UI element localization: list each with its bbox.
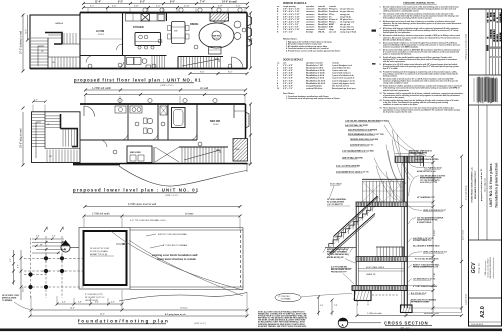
bottom treads vertical lower block <box>47 150 77 163</box>
bedroom window right <box>246 112 250 128</box>
svg-text:8" CONC BLK (TYP): 8" CONC BLK (TYP) <box>85 294 103 296</box>
dim ladder top-left of square <box>32 239 70 253</box>
garage/stair block outline left <box>30 15 80 69</box>
pier grid dashed verticals <box>31 236 63 298</box>
svg-text:UNIT NO.01 floor plans: UNIT NO.01 floor plans <box>489 163 493 207</box>
svg-text:finished grade for frost prote: finished grade for frost protection. <box>383 31 411 34</box>
svg-text:NEW HAVEN CONNECTICUT: NEW HAVEN CONNECTICUT <box>474 170 477 199</box>
dimension labels top <box>95 1 237 4</box>
up arrows top of pier lines <box>44 227 47 232</box>
interior U wall lower stair <box>61 114 78 147</box>
grade curves across foundation <box>111 231 243 290</box>
svg-text:STANDARD GENERAL NOTES: STANDARD GENERAL NOTES <box>403 1 435 4</box>
top wall main body <box>80 12 247 14</box>
floor to floor dims text <box>434 178 465 277</box>
svg-text:field conditions before procee: field conditions before proceeding with … <box>383 17 432 20</box>
project column dividers <box>478 105 480 240</box>
window tag circles top wall <box>143 8 242 12</box>
extension verticals bottom dims <box>31 290 247 316</box>
svg-text:8'-0": 8'-0" <box>18 264 20 268</box>
notes below foundation <box>85 294 105 302</box>
title block outer border <box>469 9 502 326</box>
svg-text:DOOR SCHEDULE: DOOR SCHEDULE <box>283 60 304 62</box>
stair enclosure walls <box>178 56 223 58</box>
cooktop X <box>141 14 150 22</box>
svg-text:3'-4" x 4'-6" x 1'-10": 3'-4" x 4'-6" x 1'-10" <box>283 28 300 31</box>
svg-text:conditions to remain as noted: conditions to remain as noted on the pla… <box>383 103 418 106</box>
svg-text:for all permits required for t: for all permits required for the work. <box>383 110 413 113</box>
leader arrow to wall <box>116 243 125 245</box>
svg-text:KITCHEN: KITCHEN <box>133 26 144 29</box>
svg-text:of the work on this project.: of the work on this project. <box>383 96 405 99</box>
svg-text:MECH RM: MECH RM <box>130 152 141 154</box>
svg-text:9'-6": 9'-6" <box>200 72 205 74</box>
svg-text:fixed/glz: fixed/glz <box>306 32 313 34</box>
svg-text:VIF PRIOR TO CONST: VIF PRIOR TO CONST <box>411 302 430 304</box>
kitchen island <box>135 33 161 46</box>
slab band <box>352 286 407 291</box>
kitchen counter band <box>126 14 166 22</box>
dimension extension lines into top wall <box>88 8 245 13</box>
svg-text:3'-0" x 4'-6" x 1'-10": 3'-0" x 4'-6" x 1'-10" <box>283 18 300 21</box>
closet lines bedroom <box>233 104 235 118</box>
bottom corner mark <box>469 321 502 323</box>
svg-text:4: 4 <box>277 72 278 75</box>
svg-text:proposed residence unit no. 01: proposed residence unit no. 01 <box>480 168 483 201</box>
bottom dim mid span <box>31 309 247 311</box>
stair rail line <box>48 56 80 58</box>
upper stair treads <box>48 33 76 44</box>
door arc kitchen <box>117 44 123 50</box>
left tiny note foundation <box>2 295 20 302</box>
svg-text:12'x14': 12'x14' <box>98 34 105 36</box>
firm divider <box>469 239 502 241</box>
dn arrow lower block <box>36 122 41 158</box>
margin marks <box>372 30 377 32</box>
svg-text:1-7/8th left width: 1-7/8th left width <box>92 86 112 90</box>
svg-text:9'-0" x 7'-0": 9'-0" x 7'-0" <box>283 88 293 90</box>
svg-text:LIV RM: LIV RM <box>96 30 104 33</box>
svg-text:casng tmp w/ head: casng tmp w/ head <box>340 31 356 34</box>
svg-text:R-30 BATT INSUL: R-30 BATT INSUL <box>417 221 432 224</box>
right wall double line <box>403 156 405 308</box>
svg-text:rough opening: rough opening <box>283 6 296 8</box>
svg-text:2. Contractor verify all open: 2. Contractor verify all openings and sw… <box>286 97 340 100</box>
armchairs right <box>234 21 241 28</box>
entry door arc top <box>84 106 95 117</box>
svg-text:framing members.: framing members. <box>383 75 398 77</box>
svg-text:points as required by the fabr: points as required by the fabricator. <box>383 53 412 56</box>
deck guardrail <box>362 178 404 180</box>
left wall <box>355 207 357 290</box>
svg-text:16'-8": 16'-8" <box>23 286 25 292</box>
lower stair treads vertical <box>52 57 76 69</box>
guardrail note block <box>327 198 347 206</box>
svg-text:total width o wall: total width o wall <box>424 312 439 315</box>
section glazed door lines <box>401 181 403 202</box>
left vertical dim plan1 <box>22 15 24 71</box>
extension lines into foundation <box>84 218 240 230</box>
stair treads horizontal left block <box>31 38 48 68</box>
sheet number divider <box>469 297 502 299</box>
far right overall dim <box>461 156 463 312</box>
svg-text:material: material <box>318 5 325 8</box>
door arcs lower plan <box>121 133 128 140</box>
stair rail balusters <box>334 196 378 248</box>
stair stringer <box>330 214 375 254</box>
living room seating oval <box>199 23 234 48</box>
left lower annotations <box>327 249 352 274</box>
svg-text:obs glz unit: obs glz unit <box>340 23 350 26</box>
powder wc <box>142 59 147 64</box>
up arrow stair <box>38 46 44 66</box>
svg-text:14'-0": 14'-0" <box>70 308 75 310</box>
hatched crawl block <box>233 139 248 162</box>
stair divider wall <box>47 38 49 69</box>
svg-text:casement: casement <box>306 23 315 26</box>
lower rail posts <box>376 246 404 248</box>
svg-text:DINING: DINING <box>190 23 199 26</box>
mech room <box>127 146 152 163</box>
svg-text:4'-0": 4'-0" <box>95 302 99 304</box>
svg-text:shall be performed in a workma: shall be performed in a workmanlike mann… <box>383 10 420 12</box>
svg-text:proposed first floor level pla: proposed first floor level plan : UNIT N… <box>74 78 201 83</box>
section marker A foundation <box>61 243 70 252</box>
right vertical dim plan1 <box>250 13 252 68</box>
svg-text:4'-0" FTG BTM MIN: 4'-0" FTG BTM MIN <box>331 266 348 269</box>
svg-text:8" CONC BLK: 8" CONC BLK <box>279 296 291 298</box>
svg-text:energy star: energy star <box>340 13 350 16</box>
notes right of foundation <box>158 233 188 247</box>
svg-text:GRADE VIF: GRADE VIF <box>366 273 375 276</box>
svg-text:energy code compliance report.: energy code compliance report. <box>383 82 409 85</box>
dimension line top overall <box>83 3 247 5</box>
pier footing dots <box>28 256 64 289</box>
leader curves left annotations <box>374 121 426 202</box>
svg-text:24 OF 38 SHTS: 24 OF 38 SHTS <box>471 324 484 326</box>
svg-text:operation / material: operation / material <box>306 61 323 64</box>
fascia <box>423 156 425 166</box>
mid landing wall <box>62 43 80 45</box>
svg-text:casement: casement <box>306 28 315 31</box>
grade s-curve below plan2 <box>119 166 247 186</box>
bottom wall <box>30 68 247 70</box>
svg-text:CRL/GL: CRL/GL <box>318 32 326 34</box>
crawl lines <box>358 268 404 270</box>
svg-text:SILL SEALER & TERMITE SHLD: SILL SEALER & TERMITE SHLD <box>413 245 440 248</box>
svg-text:1/2" ANCH BOLT @ 32" OC: 1/2" ANCH BOLT @ 32" OC <box>413 278 436 281</box>
firm address rotated <box>484 257 495 279</box>
svg-text:4-7 prop base to s/c: 4-7 prop base to s/c <box>165 313 186 316</box>
hatch under stair stringer <box>327 216 375 259</box>
closet stripes <box>152 56 165 69</box>
svg-text:casement: casement <box>306 10 315 13</box>
bathtub <box>172 108 186 128</box>
svg-text:w/ egrs hdw unit: w/ egrs hdw unit <box>340 28 354 31</box>
right dimension line <box>432 156 434 312</box>
svg-text:GCV: GCV <box>471 262 477 274</box>
top dim line foundation <box>85 206 240 208</box>
svg-text:( 3/16" = 1'-0" ): ( 3/16" = 1'-0" ) <box>194 323 206 325</box>
left wall of main body <box>79 13 81 16</box>
svg-text:6'-2": 6'-2" <box>118 2 123 4</box>
svg-text:FTG W/ (2) #4 BARS: FTG W/ (2) #4 BARS <box>90 250 108 253</box>
svg-text:5'-0": 5'-0" <box>52 236 56 238</box>
svg-text:24'-2" overall: 24'-2" overall <box>462 230 465 240</box>
svg-text:ALUM GUTTER O/ 1x8: ALUM GUTTER O/ 1x8 <box>417 170 436 173</box>
left footing <box>355 291 372 301</box>
bottom wall lower plan thick garage <box>73 163 120 166</box>
svg-text:@ 4" OC MAX TYP: @ 4" OC MAX TYP <box>327 203 344 206</box>
shower <box>160 106 167 115</box>
bottom dense note block <box>258 310 307 327</box>
svg-text:HP glazed unit: HP glazed unit <box>340 18 353 21</box>
svg-text:( 3/16" = 1'-0" ): ( 3/16" = 1'-0" ) <box>165 195 179 197</box>
stair arrow bottom run <box>184 150 220 160</box>
sofa lower <box>209 47 222 55</box>
revision divider <box>469 74 502 76</box>
right leader curves <box>409 151 425 306</box>
svg-text:4" CONC SLAB W/ 6x6 WWM: 4" CONC SLAB W/ 6x6 WWM <box>413 285 438 288</box>
svg-text:treated in accordance with AWP: treated in accordance with AWPA standard… <box>383 45 419 48</box>
svg-text:7'-4": 7'-4" <box>200 1 205 4</box>
svg-text:2'-8": 2'-8" <box>334 305 338 307</box>
grade line left of stair <box>325 246 356 248</box>
conc blk oval note <box>275 293 301 301</box>
top wall lower plan <box>80 103 246 105</box>
revision entries dark text blobs <box>488 13 501 42</box>
svg-text:typ: typ <box>40 243 42 246</box>
roof band <box>395 156 424 162</box>
svg-text:TO REMAIN: TO REMAIN <box>2 299 13 302</box>
svg-text:casement: casement <box>306 18 315 21</box>
svg-text:with the code requirements.: with the code requirements. <box>383 60 406 63</box>
svg-text:remarks: remarks <box>329 6 336 8</box>
svg-text:36" GUARDRAIL TYP: 36" GUARDRAIL TYP <box>417 196 435 199</box>
svg-text:STONE RIDGE DEVELOPMENT LLC: STONE RIDGE DEVELOPMENT LLC <box>472 167 474 203</box>
section marker circle <box>338 318 348 328</box>
svg-text:24'-0": 24'-0" <box>100 314 105 316</box>
svg-text:30'-6" bldg t/o wall: 30'-6" bldg t/o wall <box>20 128 23 148</box>
liv room mid line <box>80 38 123 40</box>
copyright micro text left of block <box>465 34 468 305</box>
svg-text:ADJACENT FINISHES. SEE STRUCT: ADJACENT FINISHES. SEE STRUCT DWGS FOR A… <box>258 325 307 328</box>
svg-text:W/ 2x2 BALUSTERS: W/ 2x2 BALUSTERS <box>327 201 345 204</box>
svg-text:Raised panel gar dr w/ opnr: Raised panel gar dr w/ opnr <box>332 88 356 90</box>
svg-text:t/o base: t/o base <box>185 213 194 216</box>
door arc entry right <box>232 57 244 69</box>
svg-text:ex't base: ex't base <box>180 307 188 310</box>
right wall <box>246 13 248 69</box>
svg-text:10: 10 <box>277 88 279 90</box>
deck floor band <box>356 202 407 207</box>
svg-text:PROTECTION TYP: PROTECTION TYP <box>331 272 347 274</box>
interior wall kitchen/entry <box>166 13 168 22</box>
svg-text:8'-1": 8'-1" <box>434 178 436 182</box>
svg-text:2x8 CEDAR FASCIA RIPPED: 2x8 CEDAR FASCIA RIPPED <box>415 158 439 161</box>
stair treads horizontal lower run1 <box>32 115 45 147</box>
svg-text:foundation/footing plan: foundation/footing plan <box>78 319 170 324</box>
svg-text:PATCH & REPAIR AS REQ: PATCH & REPAIR AS REQ <box>327 253 349 256</box>
svg-text:2'-4" x 3'-0" x 1'-8": 2'-4" x 3'-0" x 1'-8" <box>283 23 299 26</box>
svg-text:APRON & DRIVE: APRON & DRIVE <box>2 297 17 300</box>
svg-text:remarks: remarks <box>332 62 339 64</box>
svg-text:4'-0": 4'-0" <box>320 305 324 307</box>
small dims above stair block <box>33 101 45 103</box>
right vertical dim plan2 <box>250 104 252 164</box>
svg-text:Group, Inc.: Group, Inc. <box>478 262 481 273</box>
svg-text:Door Notes:: Door Notes: <box>283 92 295 95</box>
svg-text:than 8'-0" in width.: than 8'-0" in width. <box>383 67 399 70</box>
svg-text:9'-2": 9'-2" <box>228 72 233 74</box>
svg-text:4'-0": 4'-0" <box>78 302 82 304</box>
bath partition walls <box>127 104 129 140</box>
foundation wall inner thick <box>84 231 127 285</box>
door arc bottom <box>117 62 124 69</box>
svg-text:14'-0" t/o wall: 14'-0" t/o wall <box>222 1 237 4</box>
powder room wall <box>80 55 167 57</box>
svg-text:9'-2": 9'-2" <box>140 2 145 4</box>
svg-text:WINDOW SCHEDULE: WINDOW SCHEDULE <box>283 3 307 5</box>
bottom wall lower plan <box>120 163 248 165</box>
bottom dim small spans <box>57 303 122 305</box>
svg-text:TO REMAIN: TO REMAIN <box>281 298 292 301</box>
svg-text:FND WALL TO REMAIN: FND WALL TO REMAIN <box>327 251 347 254</box>
section right annotations <box>409 151 447 304</box>
right wall lower plan <box>245 104 247 150</box>
pier cross marks <box>42 254 66 271</box>
extra right annotations <box>413 158 440 288</box>
dimension ticks top <box>82 2 249 5</box>
window schedule header row <box>277 5 336 8</box>
lower floor band <box>356 257 407 262</box>
svg-text:36" HIGH GUARDRAIL: 36" HIGH GUARDRAIL <box>327 198 347 201</box>
fireplace top wall <box>210 13 229 21</box>
svg-text:proposed lower level plan : UN: proposed lower level plan : UNIT NO. 01 <box>73 188 199 193</box>
section left annotations <box>336 119 390 173</box>
svg-text:sectional OH dr/ins: sectional OH dr/ins <box>306 87 322 90</box>
svg-text:4'-0" TYP CONC BLK FDN WALL U.: 4'-0" TYP CONC BLK FDN WALL U.N.O. <box>130 219 167 222</box>
svg-text:1 panel Masonite firm: 1 panel Masonite firm <box>332 67 351 70</box>
svg-text:12'x11': 12'x11' <box>213 124 219 126</box>
svg-text:7'-10": 7'-10" <box>434 272 436 277</box>
left vertical dim plan2 <box>22 112 24 165</box>
plan1 bottom dim <box>190 73 247 75</box>
toilets <box>144 118 148 124</box>
svg-text:size: size <box>283 62 286 64</box>
dim row between plans <box>85 89 245 91</box>
stair block outline left lower <box>32 112 81 163</box>
svg-text:5. Provide insect screens at: 5. Provide insect screens at all oper wn… <box>286 50 341 53</box>
window tag circles lower plan <box>113 98 217 154</box>
liv room divider wall <box>122 13 124 56</box>
svg-text:casement: casement <box>306 13 315 16</box>
svg-text:3'-1": 3'-1" <box>34 100 38 102</box>
svg-text:EA WAY TYP OF (6): EA WAY TYP OF (6) <box>90 253 107 256</box>
washer dryer <box>127 58 134 65</box>
svg-text:foundation plan/section: foundation plan/section <box>495 162 499 207</box>
svg-text:2'-4" x 6'-8": 2'-4" x 6'-8" <box>283 77 293 80</box>
svg-text:ACI 301 and ACI 318 latest edi: ACI 301 and ACI 318 latest editions. <box>383 38 412 41</box>
section bottom dim <box>357 315 462 317</box>
svg-text:6-7/8th upper level t/o wall: 6-7/8th upper level t/o wall <box>128 203 156 206</box>
svg-text:1 panel bath enml pnt: 1 panel bath enml pnt <box>332 72 351 75</box>
revision table columns <box>486 9 499 75</box>
svg-text:5'-6": 5'-6" <box>10 258 12 262</box>
svg-text:P.T. 2x6 SILL W/ ANCH BLTS: P.T. 2x6 SILL W/ ANCH BLTS <box>415 258 439 261</box>
svg-text:BED RM: BED RM <box>210 120 220 123</box>
svg-text:SHORE AS REQ VIF: SHORE AS REQ VIF <box>327 256 345 259</box>
svg-text:2'-8" x 4'-6" x 1'-10": 2'-8" x 4'-6" x 1'-10" <box>283 10 300 13</box>
stair handrail <box>334 196 378 237</box>
stair treads <box>329 207 375 248</box>
svg-text:t/o wall: t/o wall <box>200 86 208 90</box>
wavy grade line bottom foundation <box>119 293 247 302</box>
svg-text:BELOW GRADE FROST: BELOW GRADE FROST <box>331 268 352 271</box>
hall door arc <box>86 56 93 63</box>
small tick texts above ladder <box>36 236 56 247</box>
svg-text:Window Notes:: Window Notes: <box>283 38 298 41</box>
second dim line foundation <box>84 215 240 217</box>
door schedule rows <box>277 64 356 90</box>
vanity fixtures <box>115 106 126 113</box>
window schedule rows <box>277 8 356 34</box>
consultant barcode text band <box>477 77 497 103</box>
foundation outer face line <box>79 228 130 290</box>
consultant divider <box>469 104 502 106</box>
dimension line top second tier <box>83 7 247 9</box>
stairs center bottom <box>181 57 220 69</box>
interior L wall upper stair <box>45 33 62 45</box>
svg-text:stone ridge lane: stone ridge lane <box>484 177 487 192</box>
landing line <box>45 148 80 150</box>
svg-text:operation: operation <box>306 5 314 8</box>
bottom dim overall <box>30 315 247 317</box>
svg-text:8" CONC BLK TO REMAIN: 8" CONC BLK TO REMAIN <box>163 244 188 247</box>
svg-text:EXIST 8" CONC BLK FDN WALL: EXIST 8" CONC BLK FDN WALL <box>158 233 188 236</box>
door tag circles <box>88 28 246 68</box>
svg-text:12'-6": 12'-6" <box>26 29 28 34</box>
dining table <box>172 22 186 44</box>
svg-text:B.O. FTG EL 91'-4": B.O. FTG EL 91'-4" <box>411 292 427 295</box>
svg-text:11'-4": 11'-4" <box>95 1 101 4</box>
exist ftg dashed <box>372 294 399 296</box>
svg-text:8'-6": 8'-6" <box>170 2 175 4</box>
svg-text:1-7/8th left width: 1-7/8th left width <box>367 312 382 315</box>
existing wall lines right <box>130 227 243 229</box>
svg-text:obs unit: obs unit <box>329 31 336 34</box>
stair divider wall lower <box>44 112 46 149</box>
right footing <box>401 305 413 313</box>
svg-text:1-7/8th left width: 1-7/8th left width <box>92 213 110 216</box>
right end grade ticks <box>246 164 248 172</box>
enclosed treads lower stair <box>63 130 77 147</box>
footing note inside foundation <box>90 248 110 256</box>
bay window bumps right <box>247 16 252 47</box>
svg-text:lower level structure to remai: lower level structure to remain <box>157 257 196 261</box>
svg-text:5'-6": 5'-6" <box>36 236 40 238</box>
svg-text:CRWL: CRWL <box>235 149 240 151</box>
svg-text:existing conc block foundation: existing conc block foundation wall <box>152 253 198 257</box>
svg-text:W/ #4 VERT @ 32" OC: W/ #4 VERT @ 32" OC <box>85 297 105 299</box>
svg-text:14'x16': 14'x16' <box>213 38 220 40</box>
svg-text:37'-0" building t/o wall: 37'-0" building t/o wall <box>20 30 23 54</box>
bold note existing foundation <box>152 253 198 261</box>
svg-text:2'-4" x 3'-6" x 1'-10": 2'-4" x 3'-6" x 1'-10" <box>283 13 300 16</box>
svg-text:2'-0" x 3'-6": 2'-0" x 3'-6" <box>283 32 293 34</box>
long stair treads bottom <box>182 147 224 164</box>
svg-text:GARAGE: GARAGE <box>55 22 64 25</box>
